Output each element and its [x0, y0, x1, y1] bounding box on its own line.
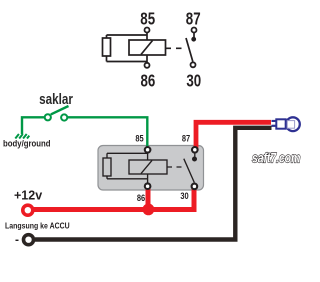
wire switch to relay pin 85	[67, 117, 147, 149]
pin 85 terminal	[145, 28, 150, 33]
mechanical link (dashed)	[166, 47, 186, 49]
wire coil bottom horizontal (box)	[107, 178, 148, 180]
pin label 30 (top symbol)	[186, 72, 201, 91]
resistor stubs (box)	[106, 153, 108, 158]
coil box (box)	[129, 160, 167, 174]
pin 87 terminal	[192, 28, 197, 33]
wire coil bottom to 86	[146, 55, 148, 63]
pin 30 terminal	[191, 62, 196, 67]
svg-text:85: 85	[135, 132, 144, 143]
junction dot at 86/+12v	[143, 204, 155, 216]
pin label 86 (top symbol)	[140, 72, 155, 91]
svg-text:30: 30	[186, 72, 201, 91]
switch contact left	[45, 114, 51, 120]
pin 30	[192, 184, 198, 190]
pin label 85 (top symbol)	[140, 10, 155, 29]
+12v terminal	[23, 205, 33, 215]
wire resistor bottom stub	[106, 56, 108, 62]
connector: ring terminal crimp prongs	[272, 120, 277, 122]
green switch circuit	[15, 106, 147, 149]
black wire: negative feed to connector	[35, 128, 272, 240]
connector hole (square)	[287, 121, 294, 129]
ground (body/ground)	[15, 134, 29, 139]
switch lever 30-87	[186, 38, 193, 62]
switch lever (box)	[184, 159, 195, 183]
svg-text:+12v: +12v	[14, 189, 42, 203]
svg-text:86: 86	[140, 72, 155, 91]
pin label 30 (box)	[180, 190, 189, 201]
switch contact right	[61, 114, 67, 120]
pin 86 terminal	[145, 63, 150, 68]
contact point (common)	[191, 37, 196, 42]
resistor (parallel)	[103, 38, 111, 56]
wire 85 to coil top	[146, 33, 148, 40]
pin 85	[145, 147, 151, 153]
svg-text:-: -	[15, 233, 19, 247]
resistor (box)	[103, 158, 111, 176]
wire coil top horizontal	[107, 34, 148, 36]
label saklar (switch)	[39, 91, 73, 108]
wire coil top horizontal (box)	[107, 152, 148, 154]
svg-text:86: 86	[137, 192, 146, 203]
wire coil bottom horizontal	[107, 61, 148, 63]
label body/ground	[3, 138, 51, 149]
wire coil to 86 (box)	[147, 174, 149, 184]
wire 87 stub	[193, 33, 195, 37]
mechanical link dashed (box)	[167, 166, 186, 168]
svg-text:30: 30	[180, 190, 189, 201]
wire 87 stub (box)	[194, 152, 196, 157]
pin 87	[192, 147, 198, 153]
svg-text:body/ground: body/ground	[3, 138, 51, 149]
switch lever (open)	[51, 106, 69, 114]
label Langsung ke ACCU	[5, 221, 70, 231]
wire ground to switch	[22, 117, 45, 134]
pin label 87 (box)	[182, 132, 191, 143]
svg-text:saft7.com: saft7.com	[252, 150, 300, 166]
pin 86	[145, 183, 151, 189]
svg-text:85: 85	[140, 10, 155, 29]
svg-text:saklar: saklar	[39, 91, 73, 108]
red wire: +12v feed, bottom	[27, 187, 194, 210]
wire resistor top stub	[106, 35, 108, 38]
relay K1 (schematic symbol, top)	[103, 28, 197, 68]
connector ring	[286, 117, 300, 131]
coil diagonal (box)	[141, 160, 152, 173]
negative terminal	[24, 235, 34, 245]
coil diagonal	[141, 41, 153, 55]
red wire: pin 87 up and right to connector	[196, 122, 271, 151]
pin label 87 (top symbol)	[186, 10, 201, 29]
pin label 86 (box)	[137, 192, 146, 203]
relay K1 (wiring box, inner schematic)	[103, 147, 198, 189]
connector crimp barrel	[276, 119, 285, 128]
watermark saft7.com	[252, 150, 300, 166]
svg-text:87: 87	[186, 10, 201, 29]
relay K1 (wiring box, gray body)	[98, 146, 204, 191]
svg-text:Langsung ke ACCU: Langsung ke ACCU	[5, 221, 70, 231]
pin label 85 (box)	[135, 132, 144, 143]
red wire: pin 86 down	[146, 187, 151, 210]
wire 85 to coil (box)	[147, 150, 149, 160]
contact point (box)	[192, 157, 197, 162]
svg-text:87: 87	[182, 132, 191, 143]
coil box	[129, 40, 166, 55]
